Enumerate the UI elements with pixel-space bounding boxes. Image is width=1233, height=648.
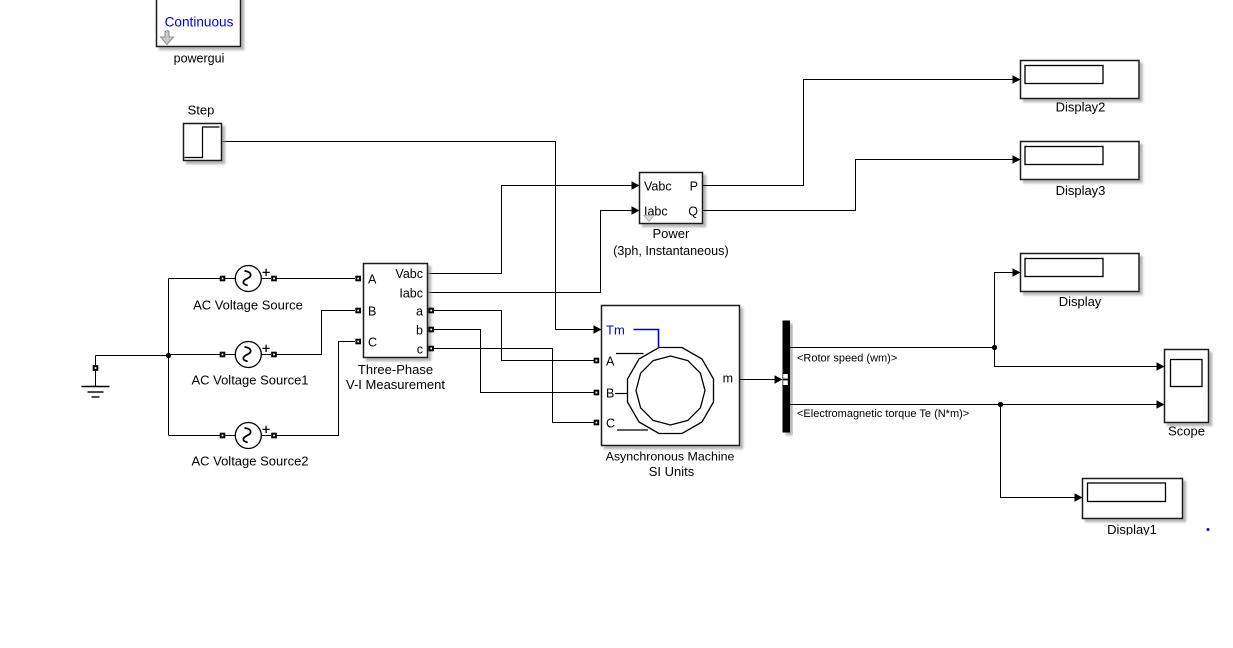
block: Power (3ph, Instantaneous) bbox=[640, 173, 703, 224]
block: Display2 bbox=[1021, 61, 1140, 99]
wire: m to Bus Selector bbox=[740, 379, 775, 381]
wire: Q to Display3 bbox=[703, 160, 1014, 211]
wire: ground stub bbox=[95, 356, 97, 367]
port square: V-I B bbox=[355, 308, 361, 314]
port square: machine C bbox=[594, 420, 600, 426]
svg-text:AC Voltage Source1: AC Voltage Source1 bbox=[191, 373, 308, 388]
wire: up to Display bbox=[995, 273, 1014, 348]
svg-text:<Electromagnetic torque Te (N*: <Electromagnetic torque Te (N*m)> bbox=[797, 408, 969, 420]
block: Display3 bbox=[1021, 142, 1140, 180]
wire: Iabc to Power bbox=[428, 211, 633, 293]
wire: AC Voltage Source to V-I port A bbox=[276, 278, 355, 280]
svg-text:V-I Measurement: V-I Measurement bbox=[346, 377, 445, 392]
wire: P to Display2 bbox=[703, 80, 1014, 186]
powergui gray arrow icon bbox=[161, 31, 174, 45]
svg-text:Display1: Display1 bbox=[1107, 522, 1157, 537]
port square: V-I A bbox=[355, 276, 361, 282]
port square: V-I c out bbox=[428, 346, 434, 352]
svg-text:Power: Power bbox=[652, 226, 690, 241]
port square: AC source right bbox=[271, 276, 277, 282]
clip of Display1 descenders bbox=[1095, 535, 1170, 545]
svg-text:Display: Display bbox=[1059, 294, 1102, 309]
svg-text:A: A bbox=[606, 355, 615, 369]
marker: gray triangle Power bbox=[644, 216, 654, 222]
arrowhead into Scope in1 bbox=[1157, 362, 1165, 370]
arrowhead into Scope in2 bbox=[1157, 400, 1165, 408]
port square: ground bbox=[93, 365, 99, 371]
svg-text:AC Voltage Source: AC Voltage Source bbox=[193, 298, 303, 313]
AC Voltage Source2 bbox=[225, 423, 271, 449]
arrowhead into machine Tm bbox=[594, 325, 602, 333]
port square: AC source2 left bbox=[220, 433, 226, 439]
port square: machine A bbox=[594, 358, 600, 364]
port square: V-I C bbox=[355, 339, 361, 345]
blue Tm lead bbox=[634, 330, 659, 348]
svg-text:P: P bbox=[690, 180, 698, 194]
wire: down to Scope in1 bbox=[995, 348, 1157, 367]
svg-text:SI Units: SI Units bbox=[649, 464, 695, 479]
svg-text:Asynchronous Machine: Asynchronous Machine bbox=[606, 450, 735, 464]
AC Voltage Source1 bbox=[225, 342, 271, 368]
bus selector input marks bbox=[783, 374, 788, 379]
svg-text:Scope: Scope bbox=[1168, 423, 1205, 438]
svg-text:Step: Step bbox=[188, 103, 215, 118]
block: powergui bbox=[157, 0, 241, 47]
wire: rotor speed out bbox=[790, 347, 995, 349]
machine C stub bbox=[617, 429, 648, 431]
port square: V-I b out bbox=[428, 327, 434, 333]
port square: AC source left bbox=[220, 276, 226, 282]
svg-text:A: A bbox=[368, 273, 377, 287]
arrowhead into Display1 bbox=[1075, 493, 1083, 501]
port square: AC source1 left bbox=[220, 352, 226, 358]
wire: ground net horizontal bbox=[96, 355, 169, 357]
svg-text:C: C bbox=[606, 417, 615, 431]
arrowhead into Display3 bbox=[1013, 155, 1021, 163]
svg-text:B: B bbox=[606, 387, 614, 401]
arrowhead into Display bbox=[1013, 268, 1021, 276]
svg-text:Vabc: Vabc bbox=[644, 180, 672, 194]
arrowhead into Power Iabc bbox=[632, 206, 640, 214]
wire: to AC Voltage Source left port bbox=[169, 278, 221, 280]
wire: Step output to machine Tm bbox=[222, 142, 596, 330]
machine inner circle bbox=[636, 356, 705, 425]
machine B stub bbox=[615, 393, 628, 395]
AC Voltage Source bbox=[225, 266, 271, 292]
port square: V-I a out bbox=[428, 308, 434, 314]
svg-text:(3ph, Instantaneous): (3ph, Instantaneous) bbox=[613, 244, 729, 258]
junction torque bbox=[998, 402, 1003, 407]
svg-text:AC Voltage Source2: AC Voltage Source2 bbox=[191, 454, 308, 469]
svg-text:b: b bbox=[416, 324, 423, 338]
arrowhead into Display2 bbox=[1013, 75, 1021, 83]
svg-text:Vabc: Vabc bbox=[395, 267, 423, 281]
svg-text:C: C bbox=[368, 336, 377, 350]
port square: machine B bbox=[594, 390, 600, 396]
machine A stub bbox=[616, 353, 644, 355]
block: Three-Phase V-I Measurement bbox=[364, 264, 428, 358]
wire: down to Display1 bbox=[1001, 405, 1076, 498]
wire: AC Voltage Source1 to V-I port B bbox=[276, 311, 355, 355]
arrowhead into Power Vabc bbox=[632, 181, 640, 189]
svg-text:m: m bbox=[723, 372, 733, 386]
wire: AC Voltage Source2 to V-I port C bbox=[276, 342, 355, 436]
machine outer circle bbox=[628, 348, 714, 434]
block: Asynchronous Machine bbox=[602, 306, 740, 446]
ground symbol bbox=[82, 371, 110, 398]
wire: left bus vertical bbox=[168, 279, 170, 436]
svg-text:Q: Q bbox=[688, 205, 698, 219]
block: Display1 bbox=[1083, 479, 1183, 519]
blue dot annotation bbox=[1206, 528, 1209, 531]
bus selector bar bbox=[783, 321, 791, 433]
svg-text:Display3: Display3 bbox=[1056, 183, 1106, 198]
block: Step bbox=[184, 124, 222, 161]
wire: a to machine A bbox=[433, 311, 594, 361]
wire: to AC Voltage Source1 left port bbox=[169, 354, 221, 356]
port square: AC source1 right bbox=[271, 352, 277, 358]
junction ground net bbox=[166, 353, 171, 358]
svg-text:B: B bbox=[368, 305, 376, 319]
svg-text:Continuous: Continuous bbox=[165, 14, 234, 29]
svg-text:c: c bbox=[417, 343, 423, 357]
block: Scope bbox=[1165, 350, 1209, 423]
arrowhead into bus bbox=[775, 375, 783, 383]
svg-text:a: a bbox=[416, 305, 423, 319]
wire: to AC Voltage Source2 left port bbox=[169, 435, 221, 437]
step waveform bbox=[185, 127, 220, 158]
wire: Vabc to Power bbox=[428, 186, 633, 274]
svg-text:Display2: Display2 bbox=[1056, 100, 1106, 115]
svg-text:Tm: Tm bbox=[606, 323, 625, 338]
port square: AC source2 right bbox=[271, 433, 277, 439]
junction rotor speed bbox=[992, 345, 997, 350]
svg-text:<Rotor speed (wm)>: <Rotor speed (wm)> bbox=[797, 353, 897, 365]
svg-text:Three-Phase: Three-Phase bbox=[358, 362, 433, 377]
svg-text:powergui: powergui bbox=[174, 51, 225, 65]
block: Display bbox=[1021, 254, 1140, 292]
wire: c to machine C bbox=[433, 349, 594, 423]
svg-text:Iabc: Iabc bbox=[399, 287, 423, 301]
wire: b to machine B bbox=[433, 330, 594, 393]
wire: torque out to Scope in2 bbox=[790, 404, 1157, 406]
